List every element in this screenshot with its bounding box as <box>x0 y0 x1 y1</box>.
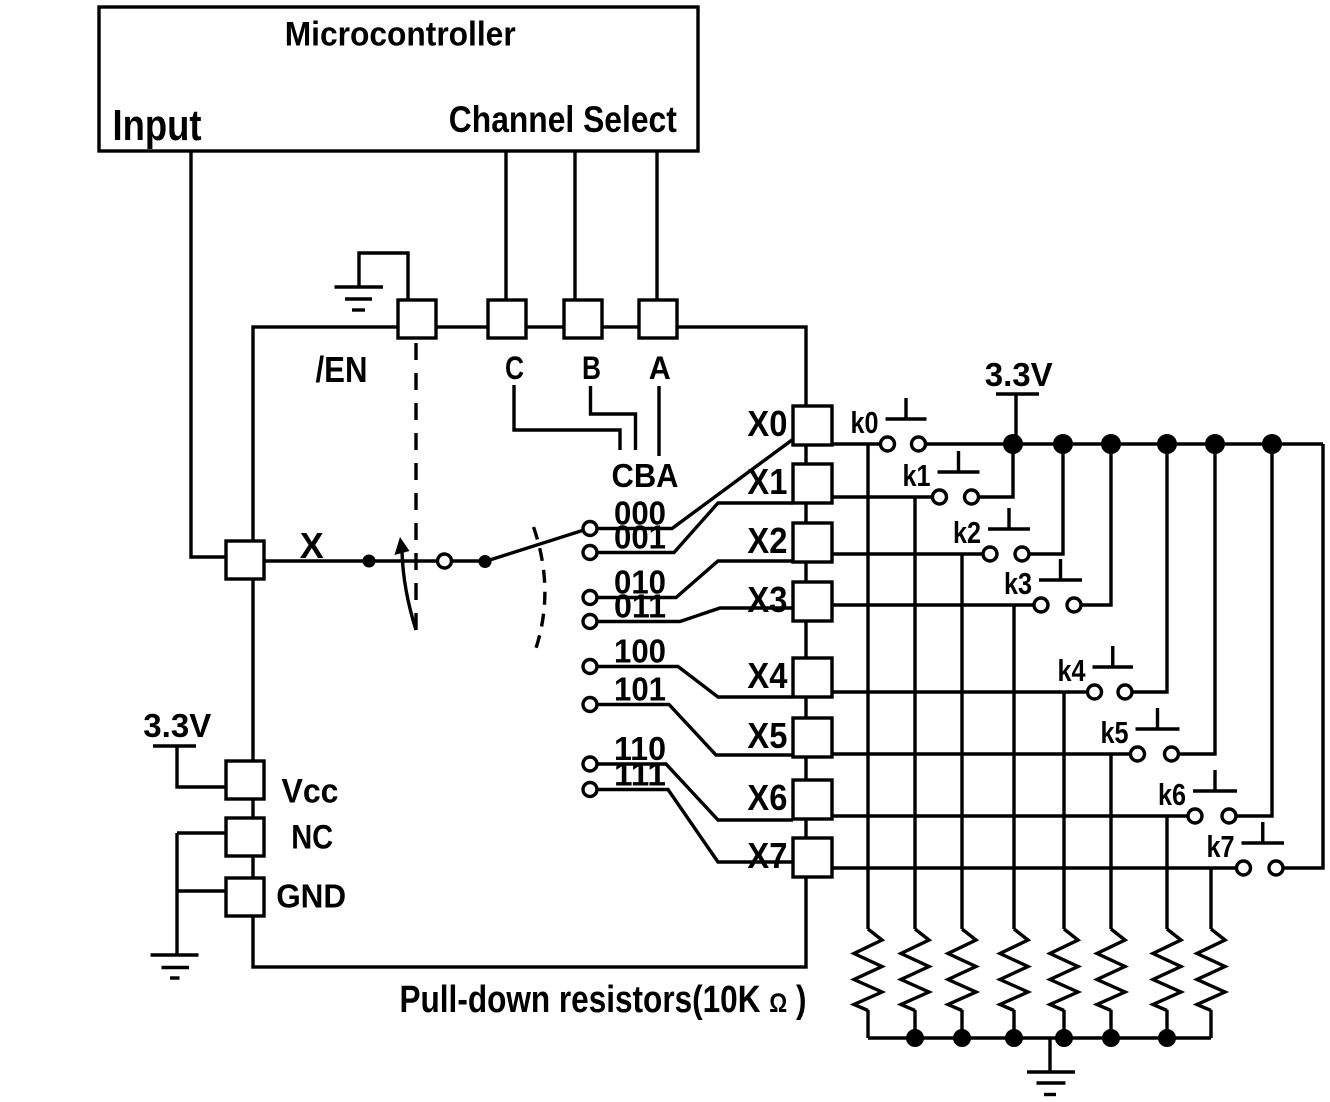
pin GND square <box>226 878 264 916</box>
wire X2 to key k2 <box>832 552 990 555</box>
svg-text:X0: X0 <box>747 403 787 444</box>
resistor R1 10K <box>901 929 929 1011</box>
microcontroller U2 box <box>99 7 698 151</box>
wire k7 to rail corner <box>1276 444 1323 868</box>
pin X5 square <box>793 718 832 757</box>
svg-text:k4: k4 <box>1058 653 1087 688</box>
pin X3 square <box>793 582 832 621</box>
wire R2 to ground rail <box>960 1010 963 1038</box>
wire k6 pulldown drop <box>1165 816 1168 929</box>
svg-text:B: B <box>582 350 601 386</box>
key k4 right terminal <box>1118 685 1132 699</box>
key k2 right terminal <box>1015 547 1029 561</box>
svg-text:X1: X1 <box>747 461 787 502</box>
ground symbol bottom right <box>1027 1072 1075 1095</box>
junction dot ground rail 4 <box>1055 1029 1073 1047</box>
wire k0 pulldown drop <box>866 444 869 929</box>
svg-text:C: C <box>505 350 524 386</box>
wire k2 pulldown drop <box>960 554 963 929</box>
channel contact circle 011 <box>583 615 597 629</box>
junction dot ground rail 6 <box>1158 1029 1176 1047</box>
svg-text:NC: NC <box>291 818 333 856</box>
junction dot rail 1 <box>1003 434 1023 454</box>
key k0 actuator symbol <box>886 398 927 419</box>
wire C to CBA <box>514 385 620 450</box>
pin NC square <box>226 818 264 856</box>
junction dot rail 6 <box>1262 434 1282 454</box>
junction dot rail 2 <box>1053 434 1073 454</box>
wire k3 to rail column <box>1074 444 1111 605</box>
key k7 left terminal <box>1237 861 1251 875</box>
power 3.3V bar (rail) <box>996 392 1039 395</box>
wire X4 to key k4 <box>832 690 1095 693</box>
junction dot rail 4 <box>1157 434 1177 454</box>
svg-text:k6: k6 <box>1158 777 1186 812</box>
wire k7 pulldown drop <box>1209 868 1212 929</box>
wire /EN to ground <box>359 253 408 300</box>
svg-text:k1: k1 <box>903 458 931 493</box>
svg-text:A: A <box>649 350 671 386</box>
wire channel 110 to X6 <box>597 764 793 820</box>
junction dot ground rail 3 <box>1005 1029 1023 1047</box>
wire X6 to key k6 <box>832 814 1195 817</box>
wire ground rail stem <box>1048 1038 1051 1072</box>
channel contact circle 100 <box>583 660 597 674</box>
resistor R3 10K <box>1000 929 1028 1011</box>
switch motion dashed arc <box>534 527 545 654</box>
wire k3 pulldown drop <box>1012 605 1015 929</box>
svg-text:Pull-down resistors(10K Ω ): Pull-down resistors(10K Ω ) <box>400 979 807 1021</box>
wire R4 to ground rail <box>1062 1010 1065 1038</box>
switch contact dot right <box>479 555 492 568</box>
multiplexer U1 box <box>253 327 806 967</box>
svg-text:k3: k3 <box>1004 566 1032 601</box>
wire X0 to key k0 <box>832 442 888 445</box>
junction dot ground rail 5 <box>1102 1029 1120 1047</box>
wire R3 to ground rail <box>1012 1010 1015 1038</box>
key k7 actuator symbol <box>1242 822 1285 843</box>
switch rotation arrowhead <box>395 537 410 555</box>
svg-text:X4: X4 <box>747 655 787 696</box>
wire channel 000 to X0 <box>597 440 793 529</box>
wire k1 to rail column <box>972 444 1014 497</box>
channel contact circle 101 <box>583 698 597 712</box>
svg-text:3.3V: 3.3V <box>143 708 212 745</box>
svg-text:X3: X3 <box>747 579 787 620</box>
key k7 right terminal <box>1269 861 1283 875</box>
channel contact circle 111 <box>583 783 597 797</box>
key k6 left terminal <box>1188 809 1202 823</box>
wire k4 to rail column <box>1125 444 1167 692</box>
svg-text:k7: k7 <box>1207 829 1235 864</box>
dashed enable control line <box>414 343 417 631</box>
wire channel 011 to X3 <box>597 608 793 622</box>
pin C square <box>488 300 526 338</box>
wire A to CBA <box>657 386 660 456</box>
switch rotation arrow arc <box>402 551 416 630</box>
key k1 right terminal <box>965 490 979 504</box>
wire X5 to key k5 <box>832 752 1138 755</box>
pin B square <box>564 300 602 338</box>
channel contact circle 000 <box>583 522 597 536</box>
wire k2 to rail column <box>1022 444 1063 554</box>
resistor R5 10K <box>1097 929 1125 1011</box>
wire k5 to rail column <box>1172 444 1216 754</box>
switch arm to channel 000 <box>485 530 584 562</box>
resistor R2 10K <box>948 929 976 1011</box>
switch contact dot left <box>363 555 376 568</box>
svg-text:X2: X2 <box>747 520 787 561</box>
key k4 actuator symbol <box>1093 646 1134 667</box>
junction dot ground rail 2 <box>953 1029 971 1047</box>
pin Vcc square <box>226 761 264 799</box>
svg-text:k0: k0 <box>851 405 879 440</box>
pin X square <box>226 541 264 579</box>
wire X1 to key k1 <box>832 495 940 498</box>
svg-text:X7: X7 <box>747 835 787 876</box>
wire X3 to key k3 <box>832 603 1041 606</box>
wire channel 010 to X2 <box>597 561 793 598</box>
wire R0 to ground rail <box>866 1010 869 1038</box>
pin A square <box>639 300 677 338</box>
key k6 right terminal <box>1222 809 1236 823</box>
wire k1 pulldown drop <box>913 497 916 929</box>
pin X6 square <box>793 780 832 819</box>
junction dot ground rail 1 <box>906 1029 924 1047</box>
wire B to CBA <box>591 386 636 450</box>
pin /EN square <box>398 300 436 338</box>
key k6 actuator symbol <box>1193 770 1237 791</box>
ground symbol bottom left <box>151 955 199 978</box>
pin X7 square <box>793 838 832 877</box>
svg-text:X6: X6 <box>747 777 787 818</box>
svg-text:k5: k5 <box>1101 715 1129 750</box>
wire R7 to ground rail <box>1209 1010 1212 1038</box>
power 3.3V bar (Vcc) <box>153 744 196 747</box>
channel contact circle 110 <box>583 757 597 771</box>
key k2 actuator symbol <box>988 508 1030 529</box>
wire channel 001 to X1 <box>597 503 793 553</box>
wire B select <box>573 151 576 300</box>
wire R1 to ground rail <box>913 1010 916 1038</box>
wire NC to ground bus <box>177 831 226 834</box>
wire channel 111 to X7 <box>597 790 793 863</box>
pin X0 square <box>793 406 832 445</box>
wire GND to ground bus <box>177 889 226 892</box>
svg-text:Microcontroller: Microcontroller <box>285 16 516 54</box>
wire 3.3V rail <box>919 442 1324 445</box>
ground symbol at /EN <box>335 287 384 310</box>
wire ground bus <box>175 833 178 955</box>
key k4 left terminal <box>1088 685 1102 699</box>
wire R6 to ground rail <box>1165 1010 1168 1038</box>
resistor R0 10K <box>854 929 882 1011</box>
wire channel 101 to X5 <box>597 705 793 756</box>
resistor R4 10K <box>1050 929 1078 1011</box>
svg-text:X5: X5 <box>747 715 787 756</box>
key k5 left terminal <box>1131 747 1145 761</box>
wire R5 to ground rail <box>1109 1010 1112 1038</box>
junction dot rail 5 <box>1205 434 1225 454</box>
wire X7 to key k7 <box>832 866 1244 869</box>
key k3 right terminal <box>1067 598 1081 612</box>
pin X4 square <box>793 658 832 697</box>
wire bottom ground rail <box>868 1036 1211 1039</box>
key k1 left terminal <box>933 490 947 504</box>
svg-text:3.3V: 3.3V <box>985 357 1054 394</box>
wire Input to X <box>191 151 226 557</box>
svg-text:Channel Select: Channel Select <box>449 99 677 140</box>
svg-text:/EN: /EN <box>316 349 368 390</box>
wire C select <box>504 151 507 300</box>
resistor R7 10K <box>1197 929 1225 1011</box>
svg-text:CBA: CBA <box>612 458 679 495</box>
svg-text:GND: GND <box>276 879 346 916</box>
svg-text:Vcc: Vcc <box>282 773 339 811</box>
key k0 right terminal <box>912 437 926 451</box>
wire channel 100 to X4 <box>597 667 793 698</box>
key k3 left terminal <box>1034 598 1048 612</box>
svg-text:k2: k2 <box>953 515 981 550</box>
key k5 right terminal <box>1165 747 1179 761</box>
wire X common <box>264 559 485 562</box>
junction dot rail 3 <box>1101 434 1121 454</box>
key k0 left terminal <box>881 437 895 451</box>
key k5 actuator symbol <box>1136 708 1180 729</box>
pin X2 square <box>793 523 832 562</box>
wire 3.3V stem to rail <box>1014 394 1017 444</box>
pin X1 square <box>793 464 832 503</box>
channel contact circle 010 <box>583 591 597 605</box>
switch wiper open circle <box>438 554 452 568</box>
wire k6 to rail column <box>1229 444 1272 816</box>
wire k5 pulldown drop <box>1109 754 1112 929</box>
channel contact circle 001 <box>583 546 597 560</box>
key k3 actuator symbol <box>1039 559 1082 580</box>
wire 3.3V to Vcc <box>177 746 226 787</box>
wire k4 pulldown drop <box>1062 692 1065 929</box>
key k2 left terminal <box>983 547 997 561</box>
wire A select <box>655 151 658 300</box>
resistor R6 10K <box>1153 929 1181 1011</box>
key k1 actuator symbol <box>938 451 980 472</box>
svg-text:Input: Input <box>113 101 202 150</box>
